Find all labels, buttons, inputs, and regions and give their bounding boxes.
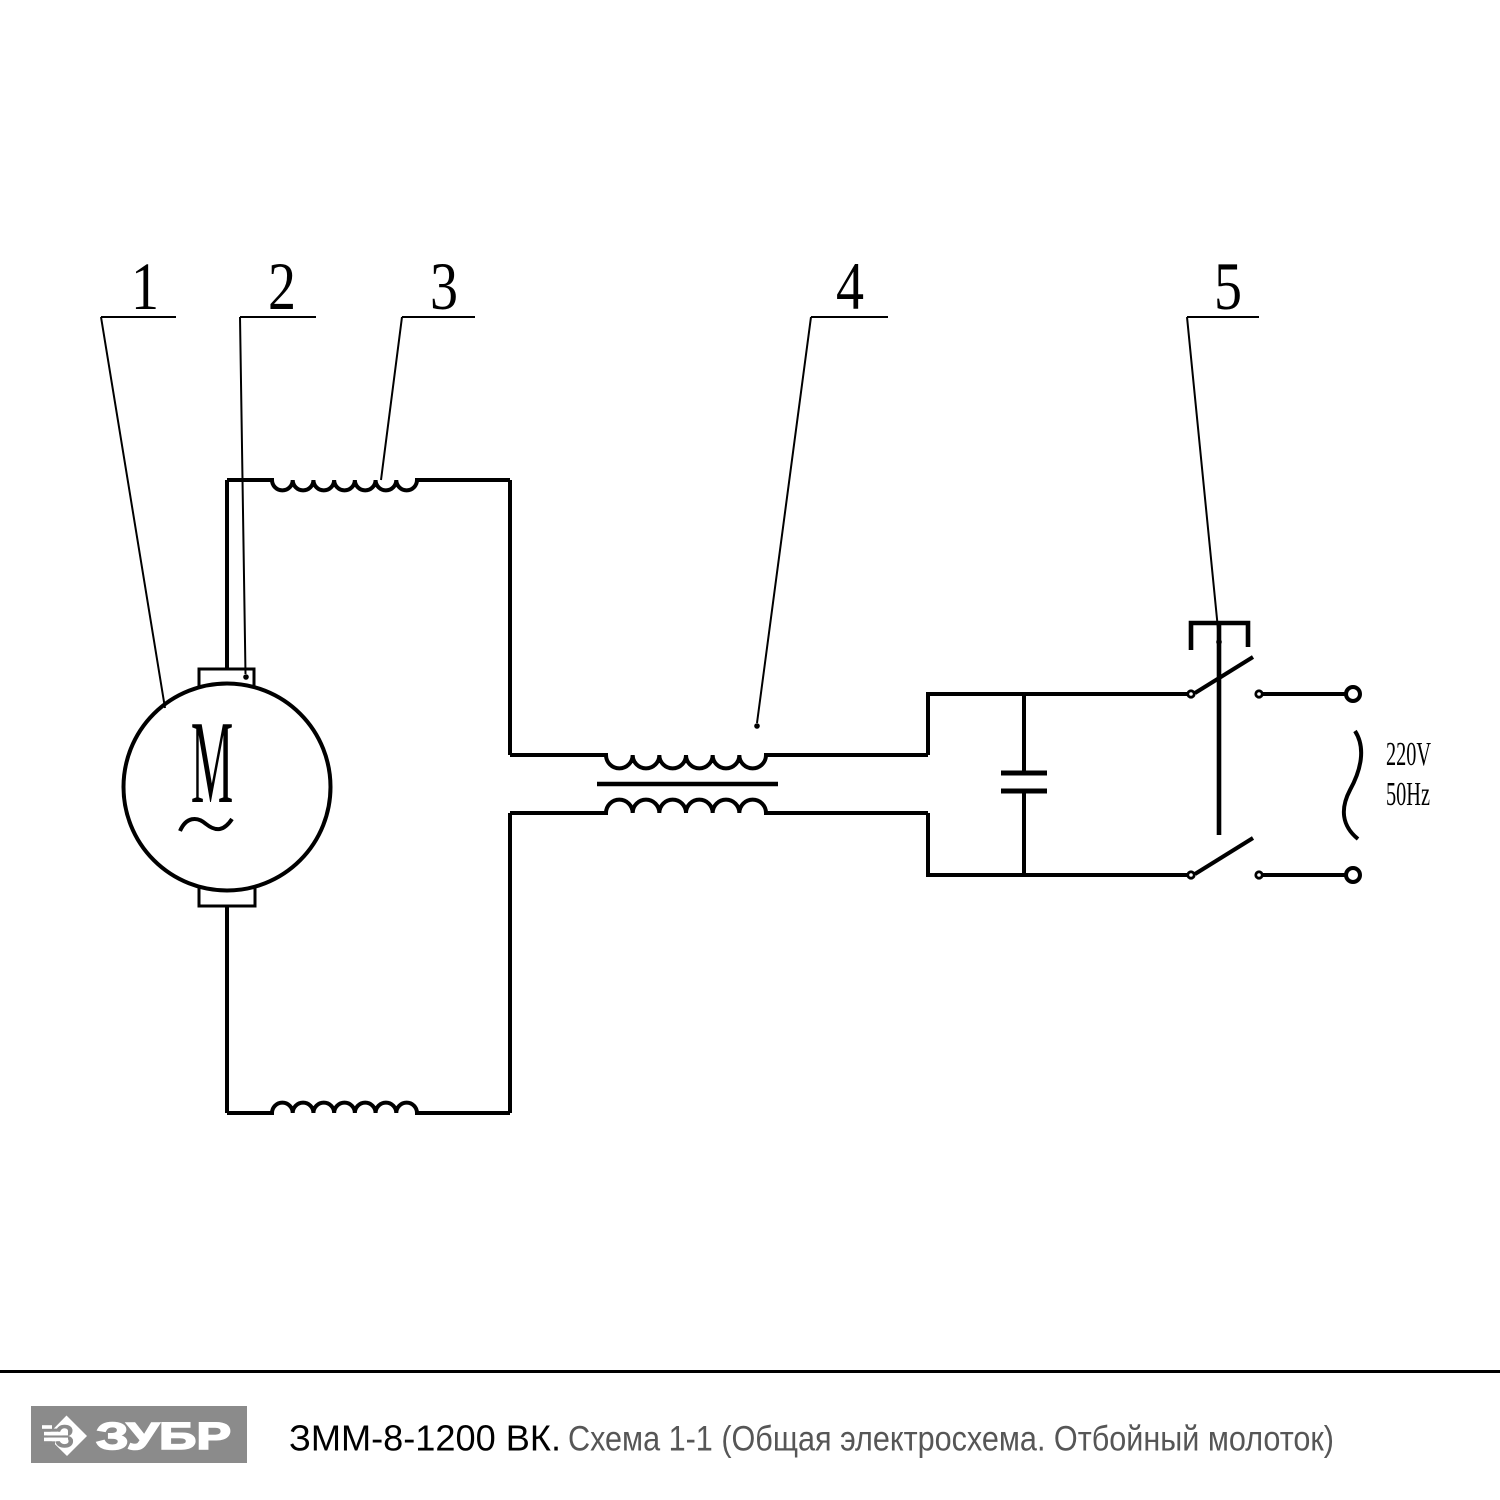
callout label 2 xyxy=(240,248,316,680)
capacitor C1 top lead xyxy=(1022,694,1026,773)
switch S1 upper pole blade xyxy=(1195,657,1253,693)
motor M1 circle xyxy=(124,684,331,891)
wire: choke upper output to top rail xyxy=(928,694,1187,755)
wire: upper right contact to terminal X1 xyxy=(1263,692,1345,696)
svg-text:50Hz: 50Hz xyxy=(1386,776,1430,813)
svg-text:ЗУБР: ЗУБР xyxy=(96,1416,231,1458)
wire: bottom field L2 up to choke input xyxy=(508,813,512,1113)
wire: motor bottom brush down xyxy=(225,906,229,1113)
wire: top-right of field L1 down to choke input xyxy=(508,480,512,755)
svg-text:2: 2 xyxy=(268,248,296,324)
switch S1 lower pole blade xyxy=(1195,838,1253,874)
terminal X2 xyxy=(1346,868,1360,882)
choke L3 lower winding, 6 turns xyxy=(510,800,928,813)
callout label 4 xyxy=(754,248,888,729)
switch S1 lower left contact xyxy=(1188,872,1194,878)
svg-text:220V: 220V xyxy=(1386,736,1431,773)
svg-text:M: M xyxy=(191,696,233,829)
switch S1 upper left contact xyxy=(1188,691,1194,697)
switch S1 actuator bracket xyxy=(1191,623,1248,650)
capacitor C1 plates xyxy=(1001,773,1047,791)
switch S1 lower right contact xyxy=(1256,872,1262,878)
motor tilde (AC symbol) xyxy=(180,819,232,831)
svg-text:1: 1 xyxy=(131,248,159,324)
choke L3 core xyxy=(597,782,778,787)
wire: choke lower output to bottom rail xyxy=(928,813,1187,875)
wire: motor top brush up to field winding xyxy=(225,480,229,669)
motor bottom brush xyxy=(199,888,255,906)
motor top brush xyxy=(199,669,254,687)
svg-text:4: 4 xyxy=(836,248,864,324)
svg-text:5: 5 xyxy=(1214,248,1242,324)
callout label 1 xyxy=(101,248,176,708)
terminal X1 xyxy=(1346,687,1360,701)
field winding L2 (bottom), 7 turns xyxy=(227,1103,510,1113)
svg-text:ЗММ-8-1200 ВК.: ЗММ-8-1200 ВК. xyxy=(289,1418,561,1459)
ZUBR logo plate xyxy=(31,1406,247,1463)
wire: lower right contact to terminal X2 xyxy=(1263,873,1345,877)
callout label 3 xyxy=(381,248,475,480)
svg-text:3: 3 xyxy=(430,248,458,324)
AC source brace xyxy=(1344,731,1361,839)
switch S1 actuator link xyxy=(1217,623,1222,835)
svg-text:Схема 1-1 (Общая электросхема.: Схема 1-1 (Общая электросхема. Отбойный … xyxy=(568,1420,1334,1459)
capacitor C1 bottom lead xyxy=(1022,791,1026,875)
ZUBR logo diamond icon xyxy=(40,1416,87,1457)
switch S1 upper right contact xyxy=(1256,691,1262,697)
choke L3 upper winding, 6 turns xyxy=(510,755,928,768)
footer rule xyxy=(0,1370,1500,1373)
callout label 5 xyxy=(1187,248,1259,645)
field winding L1 (top), 7 turns xyxy=(227,480,510,490)
